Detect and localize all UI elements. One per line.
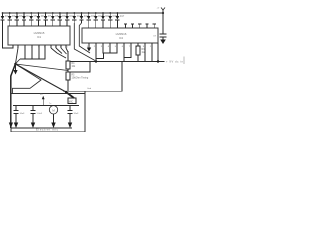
svg-text:10kOhm Timing: 10kOhm Timing [72,77,89,80]
wire top supply rail [3,12,164,14]
svg-text:+ 9V dc in: + 9V dc in [166,60,184,64]
wire IC1 bottom pin 6 [44,45,46,48]
wire branch zigzag to box [13,64,42,94]
wire IC2 top stub pin 7 [131,24,134,28]
wire LED D11 cathode long drop [74,23,95,61]
LED D13 [87,12,97,23]
svg-text:1: 1 [150,46,152,48]
wire IC1 top pin 8 [52,23,54,26]
svg-text:MIC: MIC [69,101,74,103]
svg-text:1.0uF: 1.0uF [37,113,43,115]
node junction on +9V line [95,60,97,62]
wire IC1 top pin 9 [59,23,61,26]
wire IC1 pins 7-10 to timing resistors [51,48,57,53]
svg-text:10: 10 [65,47,68,49]
LED D5 [29,12,37,23]
LED D1 [0,12,8,23]
svg-text:2: 2 [94,46,96,48]
node rail end junction [162,12,164,14]
wire IC2 top pin 2 [95,23,97,28]
svg-text:4: 4 [108,46,110,48]
LED D9 [58,12,66,23]
wire R4 to R5 [67,69,69,72]
wire IC1 top pin 7 [45,23,47,26]
node ground junction [14,63,17,66]
LED D10 [65,12,75,23]
svg-text:Electret mic: Electret mic [36,127,59,131]
svg-text:5: 5 [115,46,117,48]
capacitor 1.0uF in mic module [31,106,43,129]
LED D14 [94,12,104,23]
wire IC1 bottom pin 8 [55,45,57,48]
wire IC2 top stub pin 6 [124,24,127,28]
wire IC1 bottom pin 1 [12,45,14,48]
LED D4 [22,12,30,23]
wire box right edge extension [84,91,86,93]
svg-text:7u: 7u [49,103,51,105]
wire IC2 top pin 4 [109,23,111,28]
wire LED D12 cathode long drop [79,23,90,53]
svg-text:10k: 10k [72,66,77,68]
svg-text:IC2: IC2 [119,36,124,40]
ground arrow module left [9,123,13,129]
LED D12 [79,12,89,23]
LED D3 [15,12,23,23]
wire IC2 pin 10 down double [151,43,153,62]
svg-text:10uF: 10uF [74,113,80,115]
wire IC1 top pin 10 [66,23,68,26]
wire +9V horizontal line [70,61,165,63]
LED D16 [108,12,118,23]
svg-text:6: 6 [122,46,124,48]
wire IC1 top pin 6 [37,23,39,26]
electret mic module box [11,94,85,132]
wire IC2 pin 9 down [144,43,146,62]
resistor R5 osc timing [66,72,89,80]
wire feedback loop to mic module [63,62,122,92]
connector MIC terminal box [68,98,76,104]
wire mic module bus [13,105,79,107]
wire IC1 bottom pin 9 [60,45,62,48]
capacitor 10uF in mic module [68,106,80,129]
LED D2 [8,12,16,23]
wire IC2 top stub pin 8 [138,24,141,28]
ground arrow IC2 pin 1 [87,43,91,52]
svg-text:3: 3 [101,46,103,48]
wire chain top [67,51,69,61]
svg-text:Gnd: Gnd [87,88,92,90]
LED D8 [51,12,59,23]
svg-text:IC1: IC1 [37,35,42,39]
wire ground node diagonal feed [16,64,67,92]
svg-text:9: 9 [143,46,145,48]
svg-text:7: 7 [129,46,131,48]
LED D11 [72,12,81,23]
svg-text:C9: C9 [153,36,157,38]
display driver IC2 LM3916 [82,28,158,43]
LED D17 [115,12,125,23]
wire IC1 bottom pin 10 [65,45,67,48]
wire IC1 top pin 3 [16,23,18,26]
wire IC2 top pin 5 [116,23,118,28]
wire IC1 bottom pin 5 [38,45,40,48]
wire IC2 top stub pin 9 [145,24,148,28]
wire IC2 top pin 1 [88,23,90,28]
resistor R3 1k2 [136,43,146,62]
wire IC1 top pin 5 [30,23,32,26]
wire IC1 top pin 2 [9,23,11,26]
resistor R4 10k [66,61,76,69]
LED D7 [43,12,51,23]
LED D6 [36,12,44,23]
node on diagonal [65,91,67,93]
wire IC1 bottom pin 3 [24,45,26,48]
+V supply terminal [157,8,166,14]
capacitor C1 supply decoupling [153,13,167,40]
svg-text:LM3915: LM3915 [34,31,45,35]
wire thick ground feed left [11,65,15,128]
wire IC1 pins 3-6 strap to ground node [25,48,45,59]
wire LED D1 cathode to IC1 pin 1 [3,23,14,48]
op-amp/display driver IC1 LM3915 [8,26,70,45]
capacitor 10uF in mic module [14,106,26,129]
connector J1 output arrow [40,93,45,106]
wire thick feed into mic module [66,92,74,98]
wire IC1 bottom pin 2 [17,45,19,48]
wire IC2 top stub pin 10 [153,24,156,28]
microphone M1 [49,106,57,128]
svg-text:D17: D17 [120,15,125,18]
svg-text:R4: R4 [72,63,76,65]
wire IC2 pins 3-5 strap [103,43,117,53]
node junction right [157,60,159,62]
svg-text:M: M [52,108,55,112]
wire IC1 pin2 to ground node [16,48,18,63]
svg-text:LM3916: LM3916 [116,32,127,36]
svg-text:10uF: 10uF [20,113,26,115]
wire module ground bus [11,127,72,129]
wire IC1 top pin 4 [23,23,25,26]
svg-text:1: 1 [12,47,14,49]
wire IC2 pins 6-7 strap [124,43,131,58]
LED D15 [101,12,111,23]
wire IC1 bottom pin 7 [50,45,52,48]
svg-text:+V: +V [157,8,160,10]
wire loop around R4 label [70,62,90,73]
wire IC2 pin 2 down to +9V line [95,43,97,62]
wire R5 bottom down to feed [67,80,69,92]
ground arrow below C1 [160,40,166,45]
wire IC2 top pin 3 [102,23,104,28]
wire junction to R4-R5 tap [16,64,69,71]
wire IC1 bottom pin 4 [31,45,33,48]
ground arrow at junction [13,64,17,75]
